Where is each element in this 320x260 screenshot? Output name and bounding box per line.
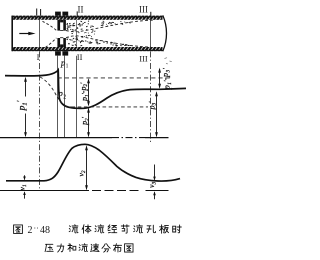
label v3 bbox=[147, 181, 157, 187]
v3 arrow upper bbox=[154, 165, 156, 180]
pipe right end cap bbox=[163, 15, 167, 51]
velocity curve bbox=[6, 144, 180, 181]
upstream converging streamline top (dashed) bbox=[43, 21, 57, 30]
min pressure dashed level line bbox=[72, 106, 149, 108]
pipe bottom wall bbox=[12, 47, 163, 51]
label p2' bbox=[80, 116, 90, 126]
svg-text:III: III bbox=[139, 54, 148, 64]
flange cap top right bbox=[62, 12, 68, 16]
orifice plate right bar lower bbox=[63, 38, 66, 47]
label p1'-p2' bbox=[79, 82, 91, 102]
svg-text:2: 2 bbox=[63, 94, 66, 100]
svg-text:II: II bbox=[78, 5, 84, 15]
section III dash-dot line bbox=[150, 51, 152, 143]
pressure baseline solid left bbox=[0, 137, 112, 139]
pipe left end cap bbox=[11, 16, 13, 52]
section I line inside pipe bbox=[39, 20, 41, 47]
plate web near bottom wall bbox=[60, 44, 63, 47]
orifice plate left bar lower bbox=[57, 38, 60, 47]
svg-text:48: 48 bbox=[40, 225, 50, 236]
noise marks near pipe end bbox=[165, 58, 172, 64]
svg-text:1: 1 bbox=[66, 64, 69, 70]
label v1 bbox=[18, 184, 28, 190]
p1'-p3' dimension arrow bbox=[159, 69, 161, 88]
v1 arrow upper bbox=[24, 175, 26, 179]
orifice plate right bar upper bbox=[63, 20, 66, 31]
section II line inside pipe bbox=[76, 20, 78, 47]
tick 2 above wall section I bbox=[40, 9, 42, 16]
svg-text:III: III bbox=[139, 5, 148, 15]
axis pressure curve (dashed) bbox=[40, 77, 72, 107]
upstream converging streamline bottom (dashed) bbox=[46, 38, 57, 48]
v2 arrow bbox=[86, 147, 88, 190]
flow arrow bbox=[19, 33, 29, 35]
section II line below pipe bbox=[76, 56, 78, 138]
pipe top wall bbox=[12, 16, 163, 20]
tick above wall section II bbox=[76, 11, 78, 16]
v1 arrow lower bbox=[24, 192, 26, 198]
orifice line extension right bbox=[64, 56, 66, 138]
label v2 bbox=[77, 170, 87, 176]
velocity baseline bbox=[0, 190, 89, 192]
pressure baseline solid right bbox=[145, 137, 169, 139]
orifice plate left bar upper bbox=[57, 20, 60, 31]
p2' dimension arrow bbox=[88, 109, 90, 137]
section III line inside pipe bbox=[150, 20, 152, 47]
label p1'-p3' bbox=[161, 68, 173, 91]
v3 arrow lower bbox=[154, 192, 156, 199]
svg-text:··: ·· bbox=[34, 224, 39, 233]
svg-text:p: p bbox=[58, 88, 63, 98]
jet boundary dashed bottom bbox=[66, 36, 151, 47]
label p1' bbox=[16, 100, 29, 111]
tick above wall section III bbox=[150, 12, 152, 16]
flange cap top left bbox=[55, 12, 61, 16]
pressure baseline dash-dot middle bbox=[112, 137, 145, 139]
orifice hole edge top bbox=[60, 29, 63, 31]
caption bbox=[14, 225, 182, 252]
p1'-p2' dimension arrow bbox=[88, 80, 90, 106]
orifice line extension left bbox=[57, 56, 59, 138]
p3' dimension arrow bbox=[156, 93, 158, 137]
label p3' bbox=[147, 101, 157, 111]
svg-text:2: 2 bbox=[28, 225, 33, 236]
wall pressure curve (solid) bbox=[5, 70, 186, 108]
orifice hole edge bottom bbox=[60, 37, 63, 39]
svg-text:II: II bbox=[77, 52, 83, 62]
initial pressure dashed level line bbox=[58, 77, 172, 79]
turbulence speckles bbox=[67, 21, 131, 46]
flange cap bottom right bbox=[62, 51, 68, 55]
flange cap bottom left bbox=[55, 51, 61, 55]
plate web near top wall bbox=[60, 20, 63, 23]
jet boundary dashed top bbox=[66, 20, 153, 32]
section I dash-dot line bbox=[39, 51, 41, 190]
p1' dimension arrow bbox=[25, 80, 27, 97]
tick above wall section I bbox=[36, 9, 38, 16]
